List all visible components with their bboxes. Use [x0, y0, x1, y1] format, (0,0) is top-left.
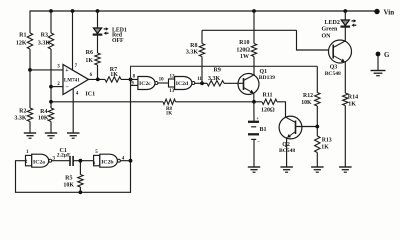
op-amp U1 LM741: [57, 64, 92, 97]
svg-text:120Ω: 120Ω: [236, 48, 250, 54]
resistor R5: [63, 175, 83, 189]
resistor R13: [315, 136, 332, 153]
svg-text:R3: R3: [41, 33, 48, 39]
resistor R8 1K: [163, 99, 176, 116]
svg-text:120Ω: 120Ω: [261, 108, 275, 114]
svg-text:ON: ON: [322, 34, 332, 40]
node IC2b output junction: [129, 159, 133, 163]
svg-text:Q1: Q1: [260, 69, 268, 75]
wire Q2 emitter lead: [286, 137, 288, 167]
node battery top: [252, 100, 256, 104]
resistor R10: [236, 40, 256, 60]
svg-text:10K: 10K: [301, 100, 312, 106]
wire IC2d out: [195, 82, 207, 84]
wire Q3 base path: [297, 30, 329, 50]
ground below Q2: [280, 167, 293, 172]
node Q2 base junction: [315, 125, 319, 129]
wire IC2b out: [120, 160, 130, 162]
svg-text:B1: B1: [260, 127, 267, 133]
wire R3-R4 node: [50, 49, 52, 108]
IC2d tied-input bracket: [169, 74, 176, 94]
svg-text:R4: R4: [40, 109, 47, 115]
svg-text:R5: R5: [65, 176, 72, 182]
wire Q3 emitter lead: [344, 62, 346, 93]
NAND gate IC2b: [100, 154, 125, 167]
terminal Vin: [374, 9, 394, 17]
node rail-R3: [49, 9, 53, 13]
svg-text:IC1: IC1: [85, 91, 95, 97]
wire R9 to Q1 base: [224, 82, 244, 84]
node A pin3: [28, 68, 32, 72]
ground below B1: [248, 167, 260, 172]
resistor R3: [38, 33, 54, 50]
wire R11 lead left: [254, 101, 262, 103]
NAND gate IC2a: [32, 154, 56, 167]
ground below R2: [24, 133, 36, 138]
wire feedback column: [16, 79, 131, 192]
node op-amp output: [96, 78, 100, 82]
svg-text:1K: 1K: [348, 102, 356, 108]
svg-text:LM741: LM741: [64, 77, 80, 83]
svg-text:10K: 10K: [38, 116, 49, 122]
label IC1: [85, 91, 95, 97]
wire IC2c out: [158, 82, 169, 84]
svg-text:+: +: [256, 117, 259, 122]
resistor R6: [85, 50, 100, 65]
svg-text:IC2b: IC2b: [101, 159, 113, 165]
ground below R4: [45, 133, 57, 138]
svg-text:R11: R11: [263, 93, 273, 99]
svg-text:BC548: BC548: [279, 148, 295, 154]
svg-text:R10: R10: [239, 40, 249, 46]
LED1 red: [93, 27, 127, 44]
svg-text:−: −: [65, 84, 69, 91]
svg-text:IC2a: IC2a: [33, 159, 45, 165]
svg-text:R1: R1: [19, 33, 26, 39]
resistor R14: [343, 93, 359, 108]
svg-text:R8: R8: [190, 43, 197, 49]
svg-text:12K: 12K: [16, 41, 27, 47]
wire sense line: [51, 101, 163, 103]
svg-text:10: 10: [159, 78, 165, 83]
ground below R13: [311, 167, 324, 172]
wire LED2 anode: [344, 11, 346, 20]
wire LED1 anode: [97, 11, 99, 28]
node rail-pin7: [71, 9, 75, 13]
ground at G: [371, 71, 386, 76]
wire top supply rail: [30, 10, 378, 12]
wire IC2c pin9 stub: [131, 84, 138, 86]
LED2 green: [322, 19, 357, 39]
node R7-pin8: [129, 78, 133, 82]
svg-text:1K: 1K: [321, 145, 329, 151]
svg-text:1W: 1W: [240, 54, 249, 60]
wire R8t top lead: [201, 30, 203, 43]
node rail-LED2: [343, 9, 347, 13]
resistor R11: [261, 93, 277, 114]
resistor R2: [14, 108, 32, 122]
wire R5 bottom lead: [79, 187, 81, 192]
svg-text:2.2µF: 2.2µF: [57, 153, 71, 159]
wire pin6 output: [89, 78, 106, 80]
wire R7 right lead: [121, 78, 138, 80]
svg-text:3.3K: 3.3K: [14, 116, 27, 122]
svg-text:BC548: BC548: [325, 71, 341, 77]
ground below pin4: [67, 133, 80, 138]
svg-text:IC2c: IC2c: [139, 81, 151, 87]
wire R6 bottom lead: [97, 65, 99, 79]
wire R11 to Q2: [277, 102, 286, 118]
resistor R4: [38, 108, 54, 122]
svg-text:BD139: BD139: [259, 75, 275, 81]
NAND gate IC2d: [175, 77, 203, 90]
resistor R9: [207, 67, 224, 86]
svg-text:R12: R12: [303, 93, 313, 99]
svg-text:R2: R2: [19, 109, 26, 115]
NAND gate IC2c: [131, 74, 164, 89]
wire Q1 emitter lead: [253, 93, 255, 121]
wire pin3 input: [30, 69, 63, 71]
svg-text:G: G: [384, 51, 390, 59]
transistor Q3 BC548: [325, 40, 352, 77]
svg-text:Q3: Q3: [330, 65, 338, 71]
wire R12 top lead: [316, 66, 318, 92]
node C1-R5: [79, 159, 83, 163]
capacitor C1: [57, 148, 73, 166]
wire Q2 base: [296, 126, 318, 128]
node R5 bottom: [79, 190, 83, 194]
resistor R8 pullup 3.3K: [186, 43, 205, 57]
svg-text:R9: R9: [214, 67, 221, 73]
wire R12 bottom lead: [316, 106, 318, 136]
wire LED1-R6: [97, 35, 99, 54]
svg-text:IC2d: IC2d: [176, 81, 189, 87]
svg-text:R13: R13: [322, 138, 332, 144]
ground below R14: [339, 167, 352, 172]
wire R14 bottom lead: [344, 106, 346, 168]
svg-text:R6: R6: [86, 50, 93, 56]
svg-text:3.3K: 3.3K: [208, 76, 221, 82]
wire R3 top lead: [50, 11, 52, 33]
wire R5 top lead: [79, 161, 81, 175]
wire R1-R2 node: [29, 49, 31, 108]
wire R2 bottom lead: [29, 122, 31, 134]
resistor R12: [301, 93, 320, 107]
node rail-R10: [252, 9, 256, 13]
node rail-LED1: [96, 9, 100, 13]
wire node to R12 column: [131, 66, 318, 79]
wire R10 to Q1 collector: [253, 57, 255, 76]
svg-text:10K: 10K: [63, 183, 74, 189]
svg-text:Green: Green: [322, 27, 339, 33]
wire C1 to IC2b: [73, 160, 94, 162]
wire y30 node line: [202, 29, 297, 31]
resistor R1: [16, 33, 33, 50]
wire rail to R10: [253, 11, 255, 44]
svg-text:LED2: LED2: [325, 20, 340, 26]
IC2a tied-input bracket: [25, 150, 32, 166]
IC2b tied-input bracket: [93, 150, 100, 167]
wire R1 top lead: [29, 11, 31, 33]
node B pin2: [49, 85, 53, 89]
wire B1 bottom lead: [253, 139, 255, 167]
wire sense line right: [176, 101, 255, 103]
svg-text:R14: R14: [348, 95, 358, 101]
svg-text:1K: 1K: [110, 72, 118, 78]
wire pin7 supply: [72, 11, 74, 70]
battery B1: [248, 117, 267, 145]
svg-text:Vin: Vin: [384, 9, 395, 17]
svg-text:+: +: [65, 67, 69, 74]
resistor R7: [105, 67, 121, 82]
svg-text:1K: 1K: [166, 112, 173, 117]
wire pin4 lead: [72, 89, 74, 133]
node R9 pullup: [200, 81, 204, 85]
wire G to ground: [377, 56, 379, 71]
svg-text:3.3K: 3.3K: [186, 50, 199, 56]
svg-text:13: 13: [169, 89, 175, 94]
wire R8t bottom lead: [201, 57, 203, 84]
svg-text:3.3K: 3.3K: [38, 41, 51, 47]
transistor Q1 BD139: [238, 69, 275, 95]
svg-text:1K: 1K: [85, 58, 93, 64]
wire LED2 to Q3 collector: [344, 27, 346, 42]
node B sense: [49, 100, 53, 104]
wire R4 bottom lead: [50, 122, 52, 134]
svg-text:−: −: [257, 141, 260, 146]
transistor Q2 BC548: [279, 116, 302, 154]
terminal G: [376, 51, 390, 59]
wire R13 bottom lead: [316, 153, 318, 168]
svg-text:OFF: OFF: [112, 38, 124, 44]
wire IC2a out to C1: [52, 160, 70, 162]
wire pin2 input: [51, 86, 63, 88]
